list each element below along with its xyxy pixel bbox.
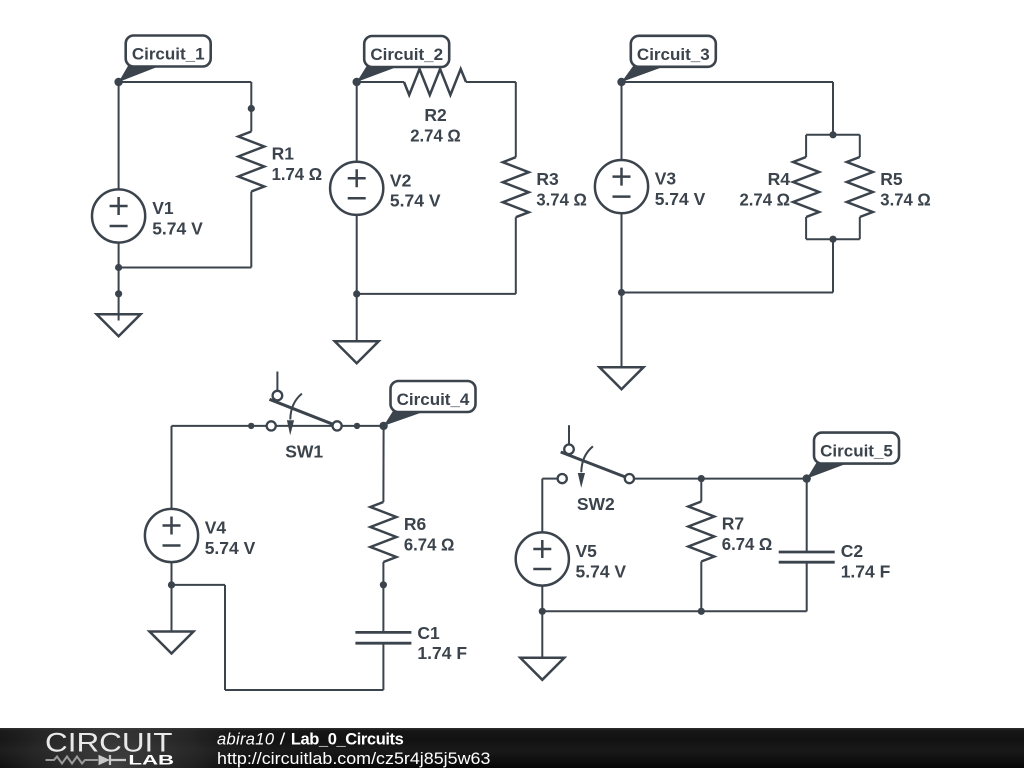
label V1 5.74 V xyxy=(152,198,203,238)
logo CIRCUIT text xyxy=(45,728,173,758)
svg-text:LAB: LAB xyxy=(128,752,174,768)
label V5 5.74 V xyxy=(576,541,627,581)
capacitor C1 xyxy=(355,632,411,643)
wire R4 top stub xyxy=(805,135,807,157)
junction dot above C1 xyxy=(380,581,387,588)
wire R5 bottom stub xyxy=(859,217,861,239)
wire R7 bottom lead xyxy=(700,562,702,612)
wire bottom rail circuit 4 xyxy=(225,689,383,691)
label V4 5.74 V xyxy=(205,518,256,558)
node Circuit_2 flag xyxy=(357,36,450,82)
svg-text:SW2: SW2 xyxy=(577,494,615,514)
node dot Circuit_5 xyxy=(803,474,811,482)
node Circuit_1 flag xyxy=(119,36,211,83)
svg-text:5.74 V: 5.74 V xyxy=(152,218,203,238)
resistor R1 xyxy=(238,132,264,192)
switch SW1 xyxy=(267,372,342,436)
footer bar xyxy=(0,728,1024,768)
svg-text:Circuit_3: Circuit_3 xyxy=(637,45,710,64)
voltage source V3 xyxy=(595,160,648,213)
node Circuit_4 flag xyxy=(384,381,476,426)
svg-text:Circuit_4: Circuit_4 xyxy=(397,390,470,409)
capacitor C2 xyxy=(779,552,835,562)
node dot Circuit_2 xyxy=(353,78,361,86)
wire C2 bottom lead xyxy=(806,562,808,611)
wire R4 bottom stub xyxy=(805,217,807,239)
label R6 6.74 ohm xyxy=(404,514,455,554)
junction dot parallel bottom xyxy=(829,236,836,243)
wire left side lower circuit 3 xyxy=(621,213,623,292)
svg-text:C1: C1 xyxy=(417,623,440,643)
label R4 2.74 ohm xyxy=(740,169,791,209)
svg-text:Circuit_1: Circuit_1 xyxy=(132,45,205,64)
svg-text:2.74 Ω: 2.74 Ω xyxy=(740,189,791,209)
svg-text:5.74 V: 5.74 V xyxy=(390,191,441,211)
wire bypass horizontal circuit 4 xyxy=(172,584,226,586)
node dot Circuit_3 xyxy=(617,78,625,86)
junction dot R7 bottom xyxy=(698,608,705,615)
svg-text:R2: R2 xyxy=(424,105,447,125)
wire top left stub circuit 5 xyxy=(542,478,557,480)
wire below V5 xyxy=(541,586,543,612)
wire right side upper circuit 1 xyxy=(250,82,252,132)
label V3 5.74 V xyxy=(655,169,706,209)
svg-text:R1: R1 xyxy=(272,144,295,164)
svg-text:R5: R5 xyxy=(880,169,903,189)
junction dot bottom circuit 3 xyxy=(618,289,625,296)
wire top rail circuit 1 xyxy=(119,81,252,83)
wire top rail circuit 3 xyxy=(622,81,834,83)
wire left side upper circuit 2 xyxy=(356,82,358,162)
svg-text:6.74 Ω: 6.74 Ω xyxy=(722,534,773,554)
svg-text:V4: V4 xyxy=(205,518,227,538)
resistor R7 xyxy=(688,502,714,562)
resistor R6 xyxy=(370,502,396,562)
logo resistor-diode graphic xyxy=(46,755,127,765)
wire below R6 xyxy=(382,562,384,585)
svg-text:SW1: SW1 xyxy=(285,441,323,461)
ground circuit 5 xyxy=(520,611,564,680)
svg-text:5.74 V: 5.74 V xyxy=(655,189,706,209)
wire left side circuit 1 xyxy=(118,82,120,190)
label R5 3.74 ohm xyxy=(880,169,931,209)
wire right side upper circuit 4 xyxy=(382,426,384,502)
junction dot right circuit 1 xyxy=(248,105,255,112)
voltage source V4 xyxy=(145,509,198,562)
voltage source V1 xyxy=(92,189,145,242)
wire bottom rail circuit 2 xyxy=(357,293,516,295)
wire top right segment circuit 2 xyxy=(466,81,516,83)
wire bottom rail circuit 3 xyxy=(622,292,834,294)
svg-text:3.74 Ω: 3.74 Ω xyxy=(536,190,587,210)
svg-text:R6: R6 xyxy=(404,514,427,534)
wire below V1 xyxy=(118,243,120,268)
wire top rail circuit 4 xyxy=(172,425,384,427)
label C1 1.74 F xyxy=(417,623,467,663)
wire bottom rail circuit 5 xyxy=(542,610,806,612)
label R1 1.74 ohm xyxy=(272,144,323,184)
wire R7 top lead xyxy=(700,479,702,502)
junction dot switch left circuit 4 xyxy=(248,423,254,429)
wire R5 top stub xyxy=(859,135,861,157)
svg-text:3.74 Ω: 3.74 Ω xyxy=(880,189,931,209)
logo LAB text xyxy=(128,752,174,768)
svg-text:2.74 Ω: 2.74 Ω xyxy=(410,125,461,145)
junction dot parallel top xyxy=(829,131,836,138)
svg-text:abira10 / Lab_0_Circuits: abira10 / Lab_0_Circuits xyxy=(217,731,404,749)
label SW2 xyxy=(577,494,615,514)
ground circuit 2 xyxy=(335,294,379,363)
wire left side circuit 4 xyxy=(171,426,173,509)
wire right side lower circuit 2 xyxy=(515,217,517,294)
svg-text:5.74 V: 5.74 V xyxy=(205,538,256,558)
voltage source V2 xyxy=(330,162,383,215)
node ground junction circuit 1 xyxy=(115,290,122,297)
node dot Circuit_1 xyxy=(114,78,122,86)
wire parallel bottom drop xyxy=(832,239,834,292)
wire bypass vertical circuit 4 xyxy=(224,585,226,690)
wire left side lower circuit 2 xyxy=(356,215,358,294)
label R2 2.74 ohm xyxy=(410,105,461,145)
ground circuit 1 xyxy=(97,268,141,337)
svg-text:C2: C2 xyxy=(841,541,864,561)
label V2 5.74 V xyxy=(390,170,441,210)
wire bottom rail circuit 1 xyxy=(119,267,252,269)
svg-text:R3: R3 xyxy=(536,169,559,189)
junction dot bottom circuit 2 xyxy=(353,290,360,297)
label R3 3.74 ohm xyxy=(536,169,587,209)
ground circuit 4 xyxy=(150,585,194,654)
junction dot bottom left circuit 5 xyxy=(539,608,546,615)
wire parallel bottom bar xyxy=(806,238,860,240)
svg-text:1.74 F: 1.74 F xyxy=(417,643,467,663)
ground circuit 3 xyxy=(600,293,644,390)
junction dot below V4 xyxy=(168,581,175,588)
footer url text xyxy=(217,750,490,768)
switch SW2 xyxy=(558,425,634,488)
voltage source V5 xyxy=(516,532,569,585)
wire left side circuit 5 xyxy=(541,479,543,533)
node dot Circuit_4 xyxy=(379,422,387,430)
node Circuit_5 flag xyxy=(807,433,899,479)
wire below V4 xyxy=(171,562,173,585)
wire C2 top lead xyxy=(806,479,808,552)
svg-text:5.74 V: 5.74 V xyxy=(576,561,627,581)
resistor R2 xyxy=(404,69,466,95)
svg-text:Circuit_2: Circuit_2 xyxy=(370,45,443,64)
svg-text:V5: V5 xyxy=(576,541,598,561)
wire parallel top bar xyxy=(806,134,860,136)
svg-text:R4: R4 xyxy=(768,169,791,189)
wire left side upper circuit 3 xyxy=(621,82,623,160)
wire top rail circuit 5 xyxy=(634,478,807,480)
wire right drop circuit 3 xyxy=(832,82,834,135)
resistor R4 xyxy=(793,157,819,217)
svg-text:V1: V1 xyxy=(152,198,174,218)
svg-text:http://circuitlab.com/cz5r4j85: http://circuitlab.com/cz5r4j85j5w63 xyxy=(217,750,490,768)
label R7 6.74 ohm xyxy=(722,514,773,554)
svg-text:Circuit_5: Circuit_5 xyxy=(820,442,893,461)
wire right side upper circuit 2 xyxy=(515,82,517,157)
svg-text:V2: V2 xyxy=(390,170,412,190)
label C2 1.74 F xyxy=(841,541,891,581)
label SW1 xyxy=(285,441,323,461)
wire right side lower circuit 1 xyxy=(250,192,252,268)
junction dot switch right circuit 4 xyxy=(354,423,360,429)
node Circuit_3 flag xyxy=(622,36,716,82)
svg-text:1.74 Ω: 1.74 Ω xyxy=(272,164,323,184)
wire top left segment circuit 2 xyxy=(357,81,404,83)
svg-text:R7: R7 xyxy=(722,514,744,534)
junction dot bottom rail circuit 1 xyxy=(115,264,122,271)
svg-text:6.74 Ω: 6.74 Ω xyxy=(404,534,455,554)
junction dot R7 top xyxy=(698,475,705,482)
wire C1 bottom lead xyxy=(382,643,384,690)
resistor R3 xyxy=(503,157,529,217)
wire C1 top lead xyxy=(382,585,384,633)
footer title text xyxy=(217,731,404,749)
svg-text:1.74 F: 1.74 F xyxy=(841,562,891,582)
svg-text:V3: V3 xyxy=(655,169,677,189)
resistor R5 xyxy=(847,157,873,217)
